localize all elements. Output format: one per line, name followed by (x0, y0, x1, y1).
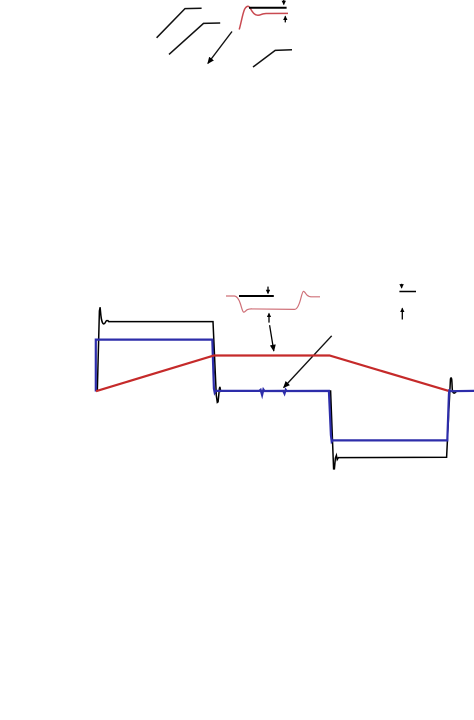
ramp segment top-left 3 (253, 50, 292, 67)
inset black reference line (239, 295, 274, 297)
up arrow upper right (401, 308, 403, 319)
arrow from inset to red trace (270, 325, 274, 351)
arrow top pointing down-left (208, 32, 232, 64)
short reference line upper right (399, 291, 416, 293)
tiny down arrow upper right (401, 284, 403, 288)
long diagonal arrow to blue trace (284, 336, 332, 388)
inset down arrow (267, 287, 269, 294)
red trapezoid trace (96, 356, 448, 392)
blue waveform trace (96, 340, 474, 442)
black reference line top-right (249, 7, 287, 9)
small down arrow top-right (283, 0, 285, 5)
ramp segment top-left 1 (157, 8, 202, 38)
ramp segment top-left 2 (169, 23, 220, 54)
small up arrow top-right (284, 16, 286, 22)
red step-response curve top-right (239, 6, 288, 29)
inset up arrow (268, 313, 270, 322)
inset red dip curve (226, 291, 320, 312)
black waveform trace with ringing (97, 307, 457, 469)
